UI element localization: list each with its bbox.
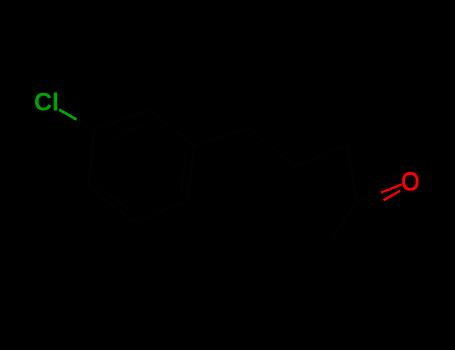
chain bond C9-C10 bbox=[348, 146, 358, 203]
bond C10=O main line red half bbox=[381, 185, 402, 193]
bond C10=O main line dark half bbox=[357, 193, 381, 203]
bond C1-Cl dark half bbox=[77, 120, 95, 130]
aromatic inner line C3-C4 bbox=[181, 154, 186, 194]
aromatic inner line C5-C6 bbox=[99, 186, 131, 211]
bond C10=O second line dark half bbox=[365, 200, 384, 208]
svg-text:Cl: Cl bbox=[34, 89, 59, 117]
bond C10-C11 methyl bbox=[331, 203, 357, 240]
chain bond C7-C8 bbox=[249, 128, 295, 167]
bond C1-Cl green half bbox=[59, 110, 76, 120]
bond C10=O second line red half bbox=[384, 191, 401, 201]
chain bond C3-C7 bbox=[195, 128, 249, 147]
aromatic inner line C1-C2 bbox=[107, 125, 147, 139]
atom label O bbox=[404, 174, 418, 190]
benzene ring outer edges C1-C6 bbox=[89, 110, 195, 221]
chain bond C8-C9 bbox=[294, 146, 348, 166]
